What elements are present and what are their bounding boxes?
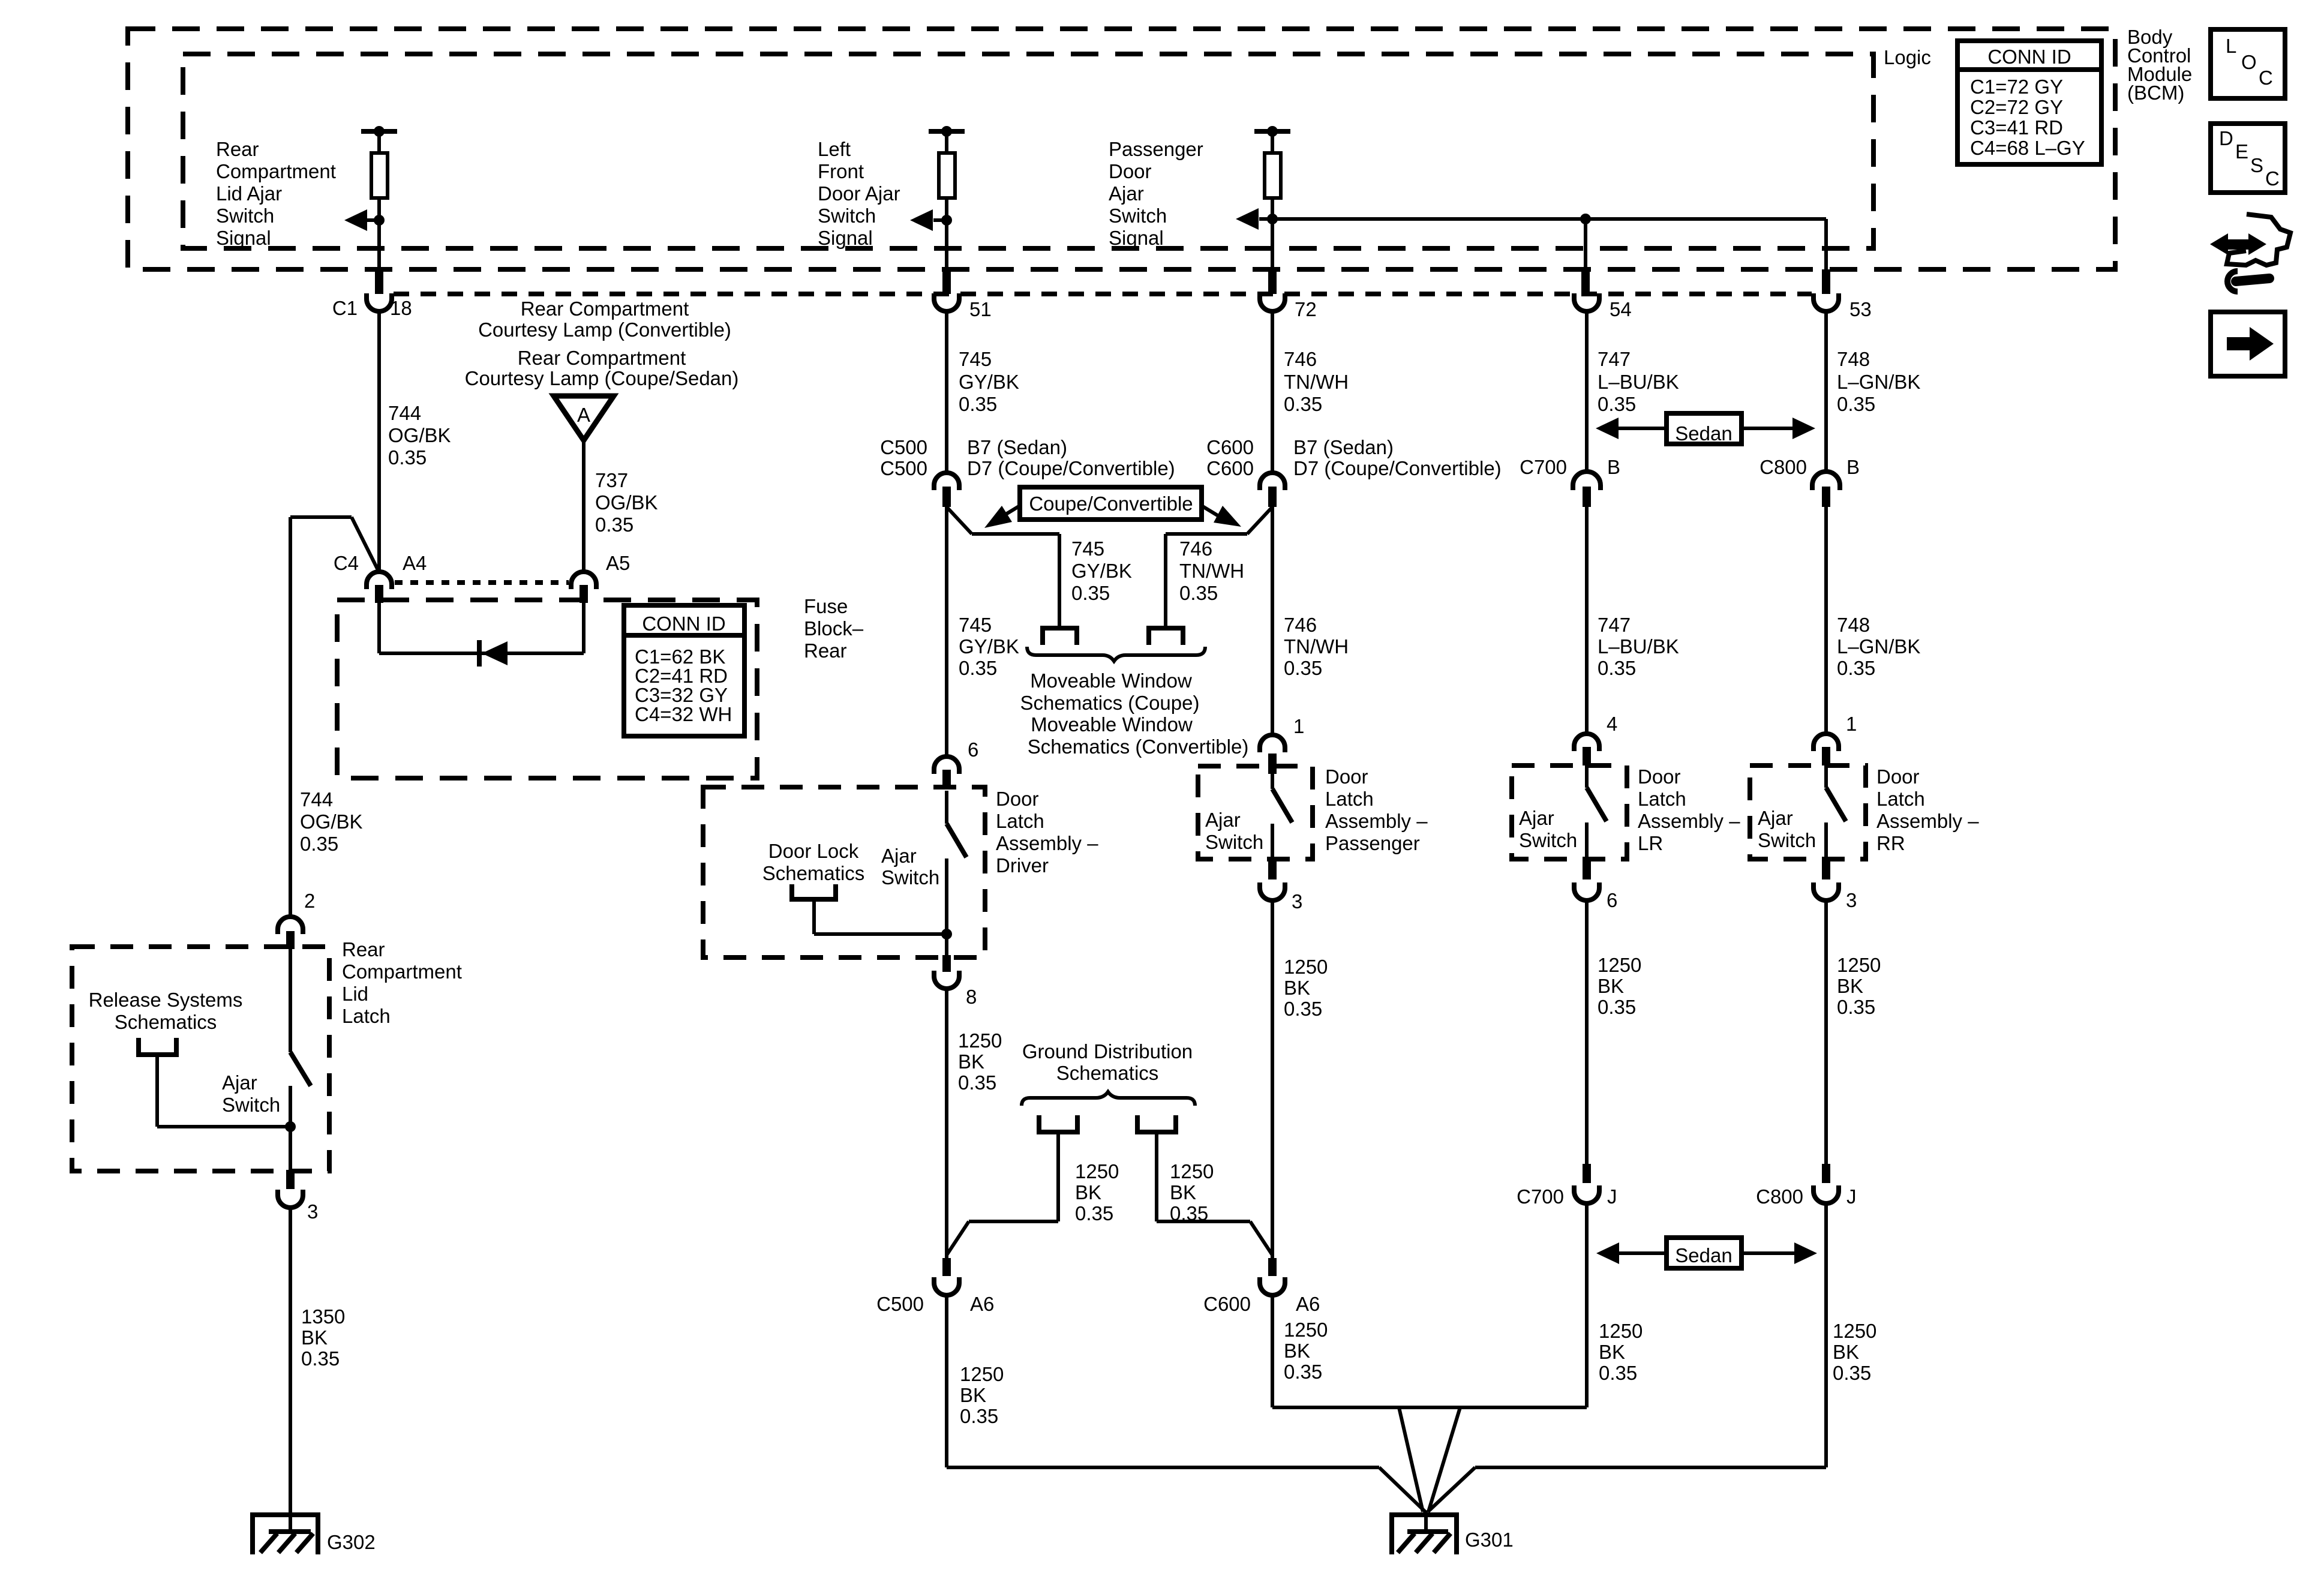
- connector pin 6 (LR latch bottom): [1574, 860, 1617, 911]
- connector C4 pin A4 (fuse block rear): [334, 552, 427, 603]
- terminal from ground distribution (right): [1137, 1115, 1272, 1255]
- label wire 1250 BK 0.35 (passenger): [1284, 956, 1328, 1020]
- svg-text:D: D: [2219, 127, 2233, 149]
- svg-text:A6: A6: [970, 1293, 994, 1315]
- svg-text:3: 3: [1292, 890, 1302, 912]
- wire passenger door run: [1271, 507, 1274, 735]
- svg-text:737: 737: [595, 469, 628, 491]
- label wire 748 L-GN/BK 0.35 (upper): [1837, 348, 1920, 415]
- svg-text:C700: C700: [1520, 456, 1567, 478]
- terminal to door lock schematics: [792, 884, 947, 934]
- label Door Latch Assembly - RR: [1876, 766, 1979, 854]
- svg-text:Switch: Switch: [818, 205, 876, 227]
- svg-text:0.35: 0.35: [1284, 998, 1322, 1020]
- svg-text:744: 744: [388, 402, 421, 424]
- label wire 1250 BK 0.35 (driver): [958, 1029, 1002, 1094]
- svg-text:BK: BK: [1170, 1181, 1196, 1203]
- svg-text:Lid Ajar: Lid Ajar: [216, 182, 282, 205]
- ajar switch (driver latch): [881, 791, 966, 956]
- svg-text:0.35: 0.35: [1284, 1361, 1322, 1383]
- svg-text:Door: Door: [1638, 766, 1681, 788]
- svg-text:RR: RR: [1876, 832, 1905, 854]
- label wire 1250 BK 0.35 (col3 bottom): [1284, 1319, 1328, 1383]
- svg-text:C2=72 GY: C2=72 GY: [1970, 96, 2063, 118]
- connector pin 3 (passenger latch bottom): [1260, 860, 1302, 912]
- label Door Latch Assembly - LR: [1638, 766, 1740, 854]
- svg-text:BK: BK: [958, 1050, 984, 1073]
- lamp A (rear compartment courtesy lamp): [554, 396, 614, 572]
- svg-text:748: 748: [1837, 348, 1870, 370]
- resistor (lid ajar pull-up): [361, 126, 397, 269]
- svg-text:BK: BK: [1599, 1341, 1625, 1363]
- svg-text:746: 746: [1179, 538, 1212, 560]
- svg-text:Ajar: Ajar: [881, 845, 917, 867]
- fuse block rear dashed box: [337, 600, 757, 778]
- svg-text:Schematics: Schematics: [1056, 1062, 1159, 1084]
- door latch assembly RR dashed box: [1750, 766, 1866, 859]
- wire branch to lid latch: [290, 517, 378, 915]
- label wire 1250 BK 0.35 (RR): [1837, 954, 1881, 1018]
- label Coupe/Convertible box: [984, 487, 1241, 528]
- svg-text:Ajar: Ajar: [1205, 809, 1241, 831]
- resistor (passenger door pull-up): [1254, 126, 1290, 269]
- ajar switch (LR latch): [1519, 766, 1607, 861]
- svg-text:B: B: [1607, 456, 1620, 478]
- label wire 746 TN/WH 0.35 (upper): [1284, 348, 1349, 415]
- connector pin 3 (lid latch bottom): [278, 1170, 318, 1223]
- svg-text:1250: 1250: [960, 1363, 1004, 1385]
- pin 51: [934, 269, 992, 320]
- svg-text:745: 745: [1071, 538, 1104, 560]
- wire RR door run: [1824, 507, 1828, 734]
- svg-text:B7 (Sedan): B7 (Sedan): [1293, 436, 1394, 458]
- svg-text:Signal: Signal: [216, 227, 271, 249]
- svg-text:C600: C600: [1206, 457, 1254, 479]
- svg-text:1250: 1250: [1284, 956, 1328, 978]
- svg-text:CONN ID: CONN ID: [642, 613, 725, 635]
- ajar switch (lid latch): [222, 949, 311, 1171]
- svg-text:Rear: Rear: [342, 938, 385, 960]
- svg-text:BK: BK: [1837, 975, 1863, 997]
- label wire 737 OG/BK 0.35: [595, 469, 658, 536]
- icon LOC box: [2211, 29, 2285, 98]
- svg-text:Latch: Latch: [1638, 788, 1686, 810]
- BCM logic inner dashed box: [183, 54, 1873, 248]
- svg-text:0.35: 0.35: [1598, 657, 1636, 679]
- svg-text:0.35: 0.35: [1598, 393, 1636, 415]
- svg-text:72: 72: [1295, 298, 1317, 320]
- svg-text:Signal: Signal: [1109, 227, 1164, 249]
- icon DESC box: [2211, 124, 2285, 193]
- connector C800 pin B: [1759, 456, 1860, 507]
- wire 745 from BCM pin 51: [945, 313, 948, 471]
- label Rear Compartment Courtesy Lamp (Convertible): [478, 298, 731, 341]
- terminal to release systems schematics: [139, 1038, 290, 1127]
- svg-text:Ajar: Ajar: [1519, 807, 1554, 829]
- svg-text:0.35: 0.35: [1284, 657, 1322, 679]
- wire passenger ground run to G301: [1272, 1296, 1587, 1512]
- svg-text:C800: C800: [1759, 456, 1807, 478]
- label wire 747 L-BU/BK 0.35 (lower): [1598, 614, 1679, 679]
- svg-text:0.35: 0.35: [1071, 582, 1110, 604]
- svg-text:C800: C800: [1756, 1185, 1803, 1208]
- arrow LF signal to logic: [910, 209, 952, 231]
- label wire 746 TN/WH 0.35 (main lower): [1284, 614, 1349, 679]
- label wire 744 OG/BK 0.35: [388, 402, 451, 469]
- ground G301: [1392, 1511, 1514, 1554]
- svg-text:Latch: Latch: [996, 810, 1044, 832]
- svg-text:BK: BK: [1284, 1340, 1310, 1362]
- svg-text:Assembly –: Assembly –: [1325, 810, 1428, 832]
- svg-text:Compartment: Compartment: [216, 160, 336, 182]
- svg-text:C: C: [2265, 167, 2280, 190]
- svg-text:Sedan: Sedan: [1675, 422, 1732, 445]
- svg-text:1: 1: [1846, 713, 1857, 735]
- label Passenger Door Ajar Switch Signal: [1109, 138, 1203, 249]
- svg-text:Switch: Switch: [222, 1094, 280, 1116]
- svg-text:B: B: [1846, 456, 1860, 478]
- svg-text:1250: 1250: [1833, 1320, 1876, 1342]
- svg-text:53: 53: [1849, 298, 1872, 320]
- svg-text:C700: C700: [1517, 1185, 1564, 1208]
- svg-text:18: 18: [390, 297, 412, 319]
- pin 72: [1260, 269, 1317, 320]
- label Left Front Door Ajar Switch Signal: [818, 138, 900, 249]
- svg-text:Passenger: Passenger: [1109, 138, 1203, 160]
- label wire 745 GY/BK 0.35 (upper): [959, 348, 1019, 415]
- svg-text:Sedan: Sedan: [1675, 1244, 1732, 1266]
- svg-text:A5: A5: [606, 552, 630, 574]
- svg-text:G301: G301: [1465, 1529, 1514, 1551]
- label Release Systems Schematics: [89, 989, 243, 1033]
- label wire 748 L-GN/BK 0.35 (lower): [1837, 614, 1920, 679]
- svg-text:LR: LR: [1638, 832, 1663, 854]
- svg-text:744: 744: [300, 788, 333, 810]
- svg-text:Door: Door: [1876, 766, 1920, 788]
- wire RR ground run to G301: [1428, 1205, 1826, 1512]
- svg-text:0.35: 0.35: [959, 393, 997, 415]
- svg-text:G302: G302: [327, 1531, 376, 1553]
- label wire 1250 BK 0.35 (col5 bottom): [1833, 1320, 1876, 1384]
- svg-text:Schematics: Schematics: [762, 862, 865, 884]
- arrow lid signal to logic: [344, 209, 385, 231]
- connector C600 pin B7/D7: [1206, 436, 1502, 507]
- svg-text:Latch: Latch: [1876, 788, 1925, 810]
- wire connector dotted line: [394, 292, 1812, 296]
- svg-text:Door Lock: Door Lock: [768, 840, 859, 862]
- label Rear Compartment Lid Latch: [342, 938, 462, 1027]
- svg-text:TN/WH: TN/WH: [1284, 635, 1349, 658]
- svg-text:C4: C4: [334, 552, 359, 574]
- svg-text:0.35: 0.35: [1284, 393, 1322, 415]
- svg-text:C: C: [2259, 67, 2273, 89]
- svg-text:OG/BK: OG/BK: [300, 810, 363, 833]
- fuse block internal wire with diode arrow: [379, 603, 584, 667]
- label Rear Compartment Lid Ajar Switch Signal: [216, 138, 336, 249]
- svg-text:Courtesy Lamp (Convertible): Courtesy Lamp (Convertible): [478, 319, 731, 341]
- label wire 747 L-BU/BK 0.35 (upper): [1598, 348, 1679, 415]
- svg-text:1350: 1350: [301, 1305, 345, 1328]
- svg-text:0.35: 0.35: [1179, 582, 1218, 604]
- label Door Lock Schematics: [762, 840, 865, 884]
- svg-text:Latch: Latch: [1325, 788, 1374, 810]
- svg-text:1250: 1250: [1598, 954, 1641, 976]
- svg-text:Schematics (Coupe): Schematics (Coupe): [1020, 692, 1200, 714]
- svg-text:C500: C500: [880, 436, 927, 458]
- svg-text:C4=68 L–GY: C4=68 L–GY: [1970, 137, 2085, 159]
- connector pin 8 (driver latch bottom): [934, 955, 977, 1008]
- wire driver to C500 A6: [945, 990, 948, 1258]
- svg-text:L: L: [2226, 35, 2236, 57]
- svg-text:Door Ajar: Door Ajar: [818, 182, 900, 205]
- svg-text:O: O: [2241, 51, 2257, 73]
- label Door Latch Assembly - Driver: [996, 788, 1098, 876]
- terminal to moveable window schematics (right): [1149, 628, 1183, 645]
- svg-text:1: 1: [1293, 715, 1304, 737]
- label wire 1250 BK 0.35 (col4 bottom): [1599, 1320, 1643, 1384]
- svg-text:C1: C1: [332, 297, 358, 319]
- svg-text:Driver: Driver: [996, 854, 1049, 876]
- svg-text:C600: C600: [1203, 1293, 1251, 1315]
- svg-text:A6: A6: [1296, 1293, 1320, 1315]
- svg-text:BK: BK: [301, 1326, 328, 1349]
- svg-text:Signal: Signal: [818, 227, 873, 249]
- svg-text:C1=72 GY: C1=72 GY: [1970, 76, 2063, 98]
- wire LR door run: [1585, 507, 1589, 734]
- svg-text:Ground Distribution: Ground Distribution: [1022, 1040, 1193, 1062]
- connector C800 pin J: [1756, 1164, 1856, 1208]
- svg-text:TN/WH: TN/WH: [1179, 560, 1244, 582]
- svg-text:0.35: 0.35: [1598, 996, 1636, 1018]
- pin 54: [1574, 269, 1632, 320]
- svg-text:C500: C500: [876, 1293, 924, 1315]
- svg-text:1250: 1250: [1284, 1319, 1328, 1341]
- svg-text:Switch: Switch: [1758, 829, 1816, 851]
- rear compartment lid latch dashed box: [72, 947, 329, 1171]
- svg-text:BK: BK: [1075, 1181, 1101, 1203]
- connector C600 pin A6: [1203, 1258, 1320, 1315]
- label Door Latch Assembly - Passenger: [1325, 766, 1428, 854]
- svg-text:0.35: 0.35: [1837, 996, 1875, 1018]
- svg-text:Switch: Switch: [216, 205, 274, 227]
- pin 18 of C1: [332, 269, 412, 319]
- svg-text:Door: Door: [1325, 766, 1368, 788]
- resistor (LF door pull-up): [929, 126, 965, 269]
- svg-text:BK: BK: [1284, 977, 1310, 999]
- svg-text:L–GN/BK: L–GN/BK: [1837, 635, 1920, 658]
- svg-text:0.35: 0.35: [300, 833, 338, 855]
- svg-text:0.35: 0.35: [960, 1405, 998, 1427]
- label wire 1250 BK 0.35 (LR): [1598, 954, 1641, 1018]
- door latch assembly LR dashed box: [1512, 766, 1627, 859]
- svg-text:0.35: 0.35: [301, 1347, 340, 1370]
- svg-text:C600: C600: [1206, 436, 1254, 458]
- label wire 1250 BK 0.35 (gnd dist right): [1170, 1160, 1214, 1224]
- connector pin 4 (LR latch top): [1574, 713, 1617, 766]
- svg-text:Rear: Rear: [216, 138, 259, 160]
- svg-text:Ajar: Ajar: [222, 1071, 257, 1094]
- terminal to moveable window schematics (left): [1043, 628, 1077, 645]
- wire RR to C800 J: [1824, 900, 1828, 1164]
- wire 746 from BCM pin 72: [1271, 313, 1274, 471]
- svg-text:4: 4: [1607, 713, 1617, 735]
- svg-text:1250: 1250: [1075, 1160, 1119, 1182]
- label wire 1250 BK 0.35 (gnd dist left): [1075, 1160, 1119, 1224]
- connector C500 pin B7/D7: [880, 436, 1175, 507]
- svg-text:Logic: Logic: [1884, 46, 1931, 68]
- connector C700 pin J: [1517, 1164, 1617, 1208]
- svg-text:A: A: [577, 404, 590, 426]
- svg-text:TN/WH: TN/WH: [1284, 371, 1349, 393]
- CONN ID table (BCM): [1957, 41, 2101, 164]
- label Ground Distribution Schematics: [1022, 1040, 1193, 1084]
- wire passenger to C600 A6: [1271, 900, 1274, 1258]
- wire 747 from BCM pin 54: [1585, 313, 1589, 471]
- svg-text:745: 745: [959, 348, 992, 370]
- svg-text:GY/BK: GY/BK: [959, 371, 1019, 393]
- connector pin 6 (driver latch top): [934, 739, 978, 788]
- svg-text:Switch: Switch: [881, 866, 939, 888]
- ground G302: [253, 1515, 376, 1554]
- svg-text:Left: Left: [818, 138, 851, 160]
- svg-text:3: 3: [307, 1200, 318, 1223]
- svg-text:Fuse: Fuse: [804, 595, 848, 617]
- pin 53: [1813, 269, 1872, 320]
- svg-text:E: E: [2235, 140, 2248, 163]
- svg-text:L–BU/BK: L–BU/BK: [1598, 635, 1679, 658]
- svg-text:Courtesy Lamp (Coupe/Sedan): Courtesy Lamp (Coupe/Sedan): [465, 367, 739, 389]
- svg-text:Moveable Window: Moveable Window: [1031, 713, 1193, 736]
- icon double-arrow with outline and wrench: [2210, 214, 2290, 292]
- connector pin 1 (passenger latch top): [1260, 715, 1304, 774]
- svg-text:746: 746: [1284, 614, 1317, 636]
- connector pin 1 (RR latch top): [1813, 713, 1857, 766]
- terminal from ground distribution (left): [947, 1115, 1077, 1255]
- svg-text:Door: Door: [996, 788, 1039, 810]
- svg-text:Switch: Switch: [1109, 205, 1167, 227]
- svg-text:C4=32 WH: C4=32 WH: [635, 703, 732, 725]
- label Sedan box (bottom): [1596, 1238, 1817, 1268]
- svg-text:OG/BK: OG/BK: [388, 424, 451, 446]
- svg-text:D7 (Coupe/Convertible): D7 (Coupe/Convertible): [1293, 457, 1502, 479]
- label wire 746 TN/WH 0.35 (branch): [1179, 538, 1244, 604]
- connector C500 pin A6: [876, 1258, 994, 1315]
- svg-text:L–BU/BK: L–BU/BK: [1598, 371, 1679, 393]
- svg-text:Rear Compartment: Rear Compartment: [518, 347, 686, 369]
- svg-text:Rear Compartment: Rear Compartment: [521, 298, 689, 320]
- svg-text:CONN ID: CONN ID: [1987, 46, 2071, 68]
- svg-text:J: J: [1607, 1185, 1617, 1208]
- svg-text:Door: Door: [1109, 160, 1152, 182]
- wire branch coupe/convertible (right): [1166, 507, 1272, 628]
- ajar switch (passenger latch): [1205, 766, 1292, 863]
- svg-text:Assembly –: Assembly –: [996, 832, 1098, 854]
- BCM outer dashed box: [128, 29, 2115, 269]
- svg-text:0.35: 0.35: [958, 1071, 996, 1094]
- label Rear Compartment Courtesy Lamp (Coupe/Sedan): [465, 347, 739, 389]
- svg-text:0.35: 0.35: [1075, 1202, 1113, 1224]
- label wire 744 OG/BK 0.35 (lower run): [300, 788, 363, 855]
- connector pin 3 (RR latch bottom): [1813, 860, 1857, 911]
- svg-text:3: 3: [1846, 889, 1857, 911]
- svg-text:BK: BK: [960, 1384, 986, 1406]
- label Fuse Block - Rear: [804, 595, 864, 662]
- svg-text:BK: BK: [1833, 1341, 1859, 1363]
- svg-text:747: 747: [1598, 348, 1631, 370]
- svg-text:C3=41 RD: C3=41 RD: [1970, 116, 2063, 139]
- svg-text:Schematics (Convertible): Schematics (Convertible): [1028, 736, 1249, 758]
- svg-text:0.35: 0.35: [1170, 1202, 1208, 1224]
- svg-text:Schematics: Schematics: [115, 1011, 217, 1033]
- svg-text:D7 (Coupe/Convertible): D7 (Coupe/Convertible): [967, 457, 1175, 479]
- svg-text:Latch: Latch: [342, 1005, 391, 1027]
- svg-text:Ajar: Ajar: [1758, 807, 1793, 829]
- brace ground distribution: [1022, 1092, 1195, 1106]
- CONN ID table (fuse block): [624, 605, 744, 736]
- svg-text:54: 54: [1610, 298, 1632, 320]
- connector pin 2 (lid latch): [278, 890, 315, 949]
- wire LR to C700 J: [1585, 900, 1589, 1164]
- svg-text:747: 747: [1598, 614, 1631, 636]
- svg-text:0.35: 0.35: [1833, 1362, 1871, 1384]
- wire 744 from BCM pin 18: [377, 313, 381, 571]
- wire 748 from BCM pin 53: [1824, 313, 1828, 471]
- svg-text:0.35: 0.35: [959, 657, 997, 679]
- svg-text:S: S: [2250, 154, 2263, 176]
- label Sedan box (top): [1596, 413, 1815, 445]
- svg-text:Lid: Lid: [342, 983, 368, 1005]
- svg-text:8: 8: [966, 986, 977, 1008]
- svg-text:A4: A4: [403, 552, 427, 574]
- svg-text:0.35: 0.35: [595, 514, 633, 536]
- svg-text:OG/BK: OG/BK: [595, 491, 658, 514]
- ajar switch (RR latch): [1758, 766, 1846, 861]
- label wire 1350 BK 0.35: [301, 1305, 345, 1370]
- svg-text:1250: 1250: [1837, 954, 1881, 976]
- wire to G302: [289, 1208, 292, 1531]
- svg-text:GY/BK: GY/BK: [959, 635, 1019, 658]
- label wire 745 GY/BK 0.35 (branch): [1071, 538, 1132, 604]
- wire shared signal bus to pins 54 and 53: [1272, 214, 1826, 269]
- svg-text:1250: 1250: [958, 1029, 1002, 1052]
- svg-text:Release Systems: Release Systems: [89, 989, 243, 1011]
- svg-text:Ajar: Ajar: [1109, 182, 1144, 205]
- svg-text:C500: C500: [880, 457, 927, 479]
- svg-text:0.35: 0.35: [1837, 657, 1875, 679]
- svg-text:L–GN/BK: L–GN/BK: [1837, 371, 1920, 393]
- door latch assembly driver dashed box: [703, 787, 985, 957]
- wire LR ground run: [1585, 1205, 1589, 1407]
- svg-text:Front: Front: [818, 160, 864, 182]
- svg-text:0.35: 0.35: [388, 446, 427, 469]
- svg-text:Switch: Switch: [1519, 829, 1577, 851]
- svg-text:Passenger: Passenger: [1325, 832, 1420, 854]
- svg-text:GY/BK: GY/BK: [1071, 560, 1132, 582]
- svg-text:0.35: 0.35: [1599, 1362, 1637, 1384]
- arrow passenger signal to logic: [1236, 208, 1278, 230]
- label Moveable Window Schematics: [1020, 670, 1249, 758]
- label wire 745 GY/BK 0.35 (main lower): [959, 614, 1019, 679]
- svg-text:Moveable Window: Moveable Window: [1030, 670, 1192, 692]
- svg-text:Coupe/Convertible: Coupe/Convertible: [1029, 493, 1193, 515]
- svg-text:748: 748: [1837, 614, 1870, 636]
- svg-text:6: 6: [968, 739, 978, 761]
- door latch assembly passenger dashed box: [1198, 766, 1313, 859]
- brace moveable window: [1027, 647, 1205, 661]
- svg-text:Block–: Block–: [804, 617, 864, 640]
- svg-text:51: 51: [969, 298, 992, 320]
- svg-text:745: 745: [959, 614, 992, 636]
